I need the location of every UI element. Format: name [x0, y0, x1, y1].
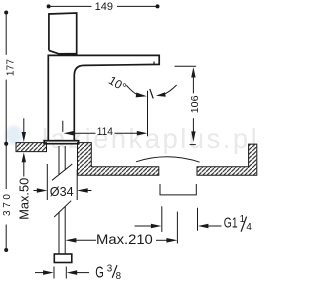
faucet body: [48, 55, 159, 140]
svg-text:G: G: [95, 264, 104, 281]
dim 149: [49, 5, 158, 7]
dim Max.50: [23, 118, 25, 134]
svg-text:106: 106: [189, 95, 201, 113]
svg-text:149: 149: [95, 1, 113, 13]
svg-text:177: 177: [5, 59, 16, 76]
svg-text:G1: G1: [224, 215, 238, 232]
supply pipe right: [64, 146, 66, 170]
dim 114: [62, 121, 64, 132]
dim O34: [46, 164, 48, 200]
dim 370: [5, 144, 7, 250]
svg-text:8: 8: [116, 271, 122, 282]
sink floor right and right wall: [197, 144, 257, 175]
svg-text:4: 4: [246, 222, 252, 233]
dim Max.210: [65, 238, 76, 243]
hose end fitting: [54, 254, 72, 263]
deck slab left: [16, 143, 47, 152]
handle: [49, 13, 77, 55]
svg-text:Max.210: Max.210: [96, 231, 153, 247]
stream axis: [147, 91, 149, 136]
dim G3/8: [53, 267, 55, 279]
dim G1-1/4: [135, 225, 153, 227]
svg-text:370: 370: [2, 194, 13, 216]
aerator: [153, 62, 155, 65]
angle tick 10deg: [150, 89, 153, 99]
svg-text:114: 114: [97, 126, 113, 138]
drain dome: [136, 157, 200, 162]
sink bowl left wall and floor: [78, 143, 159, 176]
pipe break mark upper: [52, 164, 72, 180]
angle arc left: [126, 85, 140, 96]
dim 177: [5, 13, 7, 144]
svg-text:Max.50: Max.50: [17, 178, 31, 220]
svg-text:3: 3: [107, 264, 113, 275]
supply pipe left: [58, 146, 60, 175]
watermark drop: [6, 126, 23, 145]
dim 106: [175, 65, 197, 67]
dim G1-1/4 ticks: [161, 206, 163, 232]
drain tailpiece: [160, 184, 196, 195]
base plate: [44, 141, 78, 144]
svg-text:Ø34: Ø34: [50, 184, 74, 199]
pipe break mark lower: [54, 201, 71, 217]
angle arc right: [164, 85, 177, 94]
